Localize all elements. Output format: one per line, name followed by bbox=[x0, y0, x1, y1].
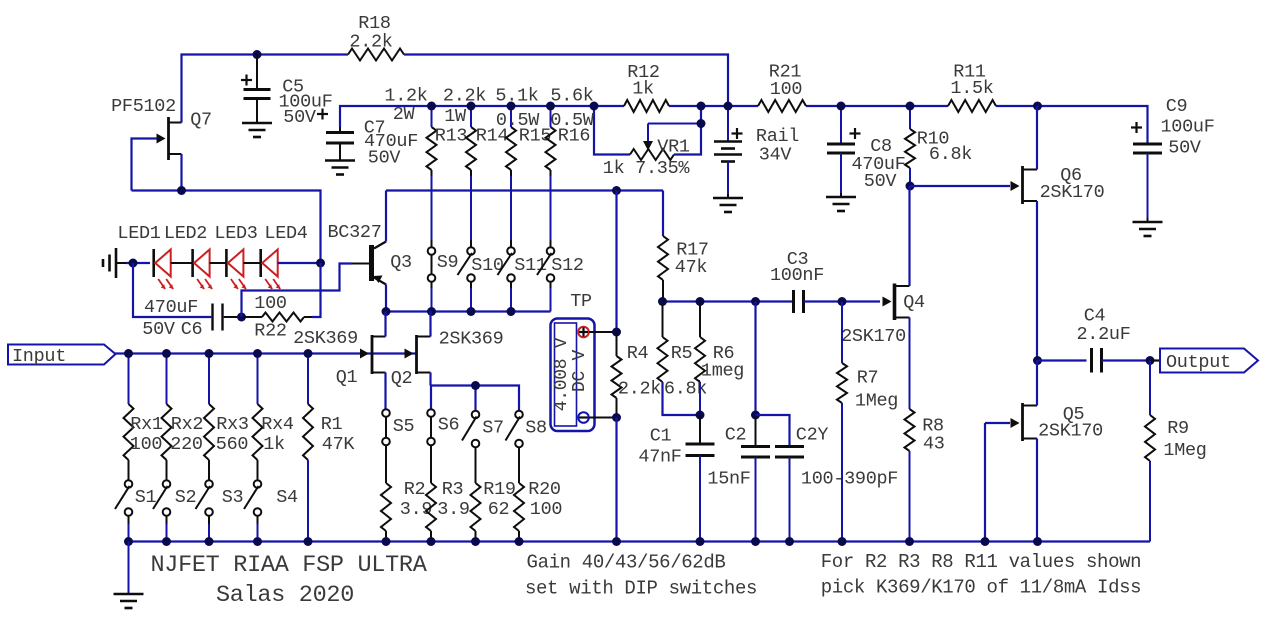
switch S3 bbox=[196, 480, 244, 541]
svg-text:50V: 50V bbox=[1168, 138, 1201, 159]
wire C6 to R22 node bbox=[224, 316, 242, 318]
svg-text:LED2: LED2 bbox=[164, 223, 207, 244]
node bottom rail x842 bbox=[838, 537, 847, 546]
svg-text:560: 560 bbox=[216, 434, 248, 455]
wire Q6 source down bbox=[1036, 201, 1038, 361]
svg-text:BC327: BC327 bbox=[327, 222, 381, 243]
resistor R17 bbox=[658, 191, 709, 302]
wire main rail bbox=[340, 106, 1148, 143]
svg-text:Input: Input bbox=[12, 346, 66, 367]
switch S9 bbox=[428, 170, 459, 312]
svg-text:5.6k: 5.6k bbox=[550, 86, 593, 107]
node C5 top junction bbox=[253, 50, 262, 59]
wire Q6 drain up bbox=[1036, 106, 1039, 170]
svg-text:R1: R1 bbox=[321, 414, 343, 435]
node Rx1 input junction bbox=[124, 349, 133, 358]
svg-text:Salas 2020: Salas 2020 bbox=[216, 582, 354, 609]
svg-text:R9: R9 bbox=[1167, 418, 1189, 439]
node Rx2 input junction bbox=[162, 349, 171, 358]
wire Q1 drain up bbox=[384, 312, 386, 337]
wire Q3 emitter rail bbox=[386, 189, 663, 191]
svg-text:100: 100 bbox=[530, 499, 562, 520]
capacitor C1 bbox=[638, 415, 714, 542]
node bottom rail x431 bbox=[427, 537, 436, 546]
svg-text:43: 43 bbox=[923, 434, 945, 455]
node R17 R5 junction bbox=[658, 297, 667, 306]
svg-text:3.9: 3.9 bbox=[437, 499, 469, 520]
switch S5 bbox=[382, 409, 414, 445]
node R4 top junction bbox=[612, 328, 621, 337]
svg-text:DC V: DC V bbox=[570, 350, 590, 393]
svg-text:Gain 40/43/56/62dB: Gain 40/43/56/62dB bbox=[527, 552, 726, 574]
transistor Q3 BC327 bbox=[327, 222, 411, 285]
node R16 rail junction bbox=[546, 102, 555, 111]
switch S10 bbox=[458, 170, 504, 312]
svg-text:NJFET RIAA FSP ULTRA: NJFET RIAA FSP ULTRA bbox=[150, 552, 427, 579]
node Q6 drain rail junction bbox=[1033, 102, 1042, 111]
node bottom rail x308 bbox=[304, 537, 313, 546]
capacitor C8 bbox=[826, 106, 906, 211]
node LED string left bbox=[129, 259, 138, 268]
svg-text:47k: 47k bbox=[675, 257, 708, 278]
transistor Q2 2SK369 bbox=[391, 329, 504, 390]
wire bottom ground rail bbox=[129, 540, 1151, 542]
wire LED1-LED2 bbox=[171, 262, 193, 264]
test point meter TP bbox=[551, 291, 595, 431]
resistor R2 bbox=[381, 445, 432, 541]
battery Rail 34V bbox=[713, 106, 799, 212]
capacitor C7 bbox=[317, 109, 418, 175]
meter minus terminal bbox=[578, 412, 589, 423]
svg-text:Q4: Q4 bbox=[903, 292, 925, 313]
svg-text:pick K369/K170 of 11/8mA Idss: pick K369/K170 of 11/8mA Idss bbox=[821, 577, 1142, 599]
node R1 input junction bbox=[304, 349, 313, 358]
node R13 rail junction bbox=[427, 102, 436, 111]
svg-text:1k: 1k bbox=[632, 79, 654, 100]
capacitor C9 bbox=[1131, 96, 1215, 236]
node bottom rail x209 bbox=[205, 537, 214, 546]
Output flag bbox=[1150, 349, 1258, 374]
wire C2 column bbox=[754, 302, 756, 416]
switch S11 bbox=[498, 170, 547, 312]
node S11 junction bbox=[507, 307, 516, 316]
transistor Q6 2SK170 bbox=[1011, 165, 1105, 204]
svg-text:100: 100 bbox=[254, 293, 286, 314]
wire S7 S8 branch bbox=[431, 386, 519, 411]
capacitor C6 bbox=[142, 297, 222, 340]
node Q5 Q6 C4 junction bbox=[1033, 356, 1042, 365]
svg-text:Rx4: Rx4 bbox=[261, 414, 294, 435]
switch S2 bbox=[153, 480, 196, 541]
LED3 bbox=[214, 223, 257, 289]
capacitor C2Y bbox=[756, 415, 899, 542]
node R10 bottom junction bbox=[906, 182, 915, 191]
svg-text:LED4: LED4 bbox=[264, 223, 307, 244]
node C2 top junction bbox=[751, 297, 760, 306]
wire Q2 source down bbox=[429, 373, 432, 410]
resistor R19 bbox=[471, 447, 516, 541]
resistor R11 bbox=[948, 62, 996, 113]
svg-text:R20: R20 bbox=[528, 479, 560, 500]
capacitor C3 bbox=[770, 249, 824, 313]
node VR1 left bbox=[590, 102, 599, 111]
resistor R7 bbox=[837, 302, 898, 542]
svg-text:2SK170: 2SK170 bbox=[1038, 421, 1103, 442]
svg-text:1k: 1k bbox=[263, 434, 285, 455]
transistor Q7 PF5102 bbox=[111, 96, 212, 160]
resistor R1 bbox=[303, 354, 355, 542]
svg-text:S12: S12 bbox=[551, 255, 583, 276]
svg-text:C6: C6 bbox=[181, 319, 203, 340]
node bottom rail x985 bbox=[981, 537, 990, 546]
wire C4 to output bbox=[1102, 359, 1161, 361]
node R15 rail junction bbox=[507, 102, 516, 111]
wire gate node row bbox=[663, 300, 795, 302]
resistor R21 bbox=[758, 62, 806, 113]
note values line1 bbox=[821, 551, 1142, 573]
svg-text:S11: S11 bbox=[514, 255, 547, 276]
svg-text:Q2: Q2 bbox=[391, 368, 413, 389]
svg-text:100-390pF: 100-390pF bbox=[801, 469, 898, 490]
resistor R10 bbox=[905, 106, 972, 186]
potentiometer VR1 bbox=[594, 106, 701, 179]
resistor R6 bbox=[695, 302, 744, 416]
wire Q5 source down bbox=[1036, 439, 1038, 542]
node bottom rail x616.5 bbox=[612, 537, 621, 546]
svg-text:100: 100 bbox=[770, 79, 802, 100]
resistor Rx2 bbox=[162, 354, 204, 481]
svg-text:220: 220 bbox=[170, 434, 202, 455]
node bottom rail x755.5 bbox=[751, 537, 760, 546]
wire Q3 collector down bbox=[385, 285, 387, 312]
capacitor C4 bbox=[1076, 306, 1130, 373]
ground LED string (rotated) bbox=[103, 248, 126, 278]
svg-text:1meg: 1meg bbox=[701, 361, 744, 382]
wire node to C4 bbox=[1038, 359, 1087, 361]
switch S12 bbox=[537, 170, 584, 312]
resistor Rx4 bbox=[253, 354, 294, 481]
switch S8 bbox=[506, 411, 547, 448]
svg-text:C9: C9 bbox=[1166, 96, 1188, 117]
svg-text:47K: 47K bbox=[322, 434, 356, 455]
wire Q5 drain up bbox=[1036, 361, 1038, 406]
svg-text:1Meg: 1Meg bbox=[1163, 440, 1206, 461]
svg-text:C2Y: C2Y bbox=[796, 425, 829, 446]
resistor Rx3 bbox=[204, 354, 249, 481]
svg-text:2.2k: 2.2k bbox=[443, 86, 486, 107]
node bottom rail x1037.5 bbox=[1033, 537, 1042, 546]
transistor Q4 2SK170 bbox=[841, 284, 925, 348]
svg-text:Rx1: Rx1 bbox=[130, 414, 163, 435]
switch S4 bbox=[244, 480, 298, 541]
svg-text:LED1: LED1 bbox=[117, 223, 160, 244]
wire TP column lower bbox=[615, 418, 617, 542]
svg-text:R22: R22 bbox=[254, 321, 286, 342]
resistor R18 bbox=[348, 13, 404, 61]
node TP column top junction bbox=[612, 186, 621, 195]
wire Q3 base bbox=[242, 264, 370, 318]
wire top supply from Q7 drain to R18 and down to rail bbox=[182, 55, 729, 123]
resistor R22 bbox=[242, 293, 313, 342]
resistor R9 bbox=[1145, 361, 1207, 542]
node bottom rail x166.5 bbox=[162, 537, 171, 546]
resistor R14 bbox=[443, 86, 509, 171]
node Q3 collector Q1 drain junction bbox=[382, 307, 391, 316]
svg-text:R13: R13 bbox=[435, 126, 467, 147]
svg-text:set with DIP switches: set with DIP switches bbox=[525, 578, 757, 600]
svg-text:LED3: LED3 bbox=[214, 223, 257, 244]
svg-text:1W: 1W bbox=[444, 106, 467, 127]
svg-text:S4: S4 bbox=[276, 487, 298, 508]
node R7 top junction bbox=[838, 297, 847, 306]
wire Q3 emitter up bbox=[385, 191, 387, 242]
svg-text:For R2 R3 R8 R11 values shown: For R2 R3 R8 R11 values shown bbox=[821, 551, 1142, 573]
svg-text:2SK170: 2SK170 bbox=[1040, 182, 1105, 203]
svg-text:5.1k: 5.1k bbox=[495, 86, 538, 107]
node R14 rail junction bbox=[467, 102, 476, 111]
node Rx4 input junction bbox=[253, 349, 262, 358]
wire switch output row bbox=[386, 310, 551, 312]
svg-text:S3: S3 bbox=[222, 487, 244, 508]
resistor R4 bbox=[612, 332, 662, 418]
svg-text:2.2k: 2.2k bbox=[349, 32, 392, 53]
wire Q4 drain up bbox=[908, 186, 911, 286]
svg-text:62: 62 bbox=[488, 499, 510, 520]
svg-text:S5: S5 bbox=[393, 416, 415, 437]
svg-text:50V: 50V bbox=[283, 107, 316, 128]
node S9 Q2 drain junction bbox=[427, 307, 436, 316]
wire meter minus to R4 bbox=[589, 417, 617, 419]
LED2 bbox=[164, 223, 212, 289]
ground bottom left bbox=[114, 542, 144, 609]
svg-text:R2: R2 bbox=[404, 479, 426, 500]
svg-text:1.5k: 1.5k bbox=[950, 78, 993, 99]
svg-text:2SK170: 2SK170 bbox=[841, 326, 906, 347]
svg-text:1k 7.35%: 1k 7.35% bbox=[603, 158, 691, 179]
capacitor C2 bbox=[707, 415, 770, 542]
node R10 rail junction bbox=[906, 102, 915, 111]
LED4 bbox=[261, 223, 308, 289]
LED1 bbox=[117, 223, 173, 289]
svg-text:S8: S8 bbox=[525, 418, 547, 439]
svg-text:R7: R7 bbox=[857, 368, 879, 389]
node bottom rail x257.5 bbox=[253, 537, 262, 546]
Input flag bbox=[8, 345, 125, 368]
node Rx3 input junction bbox=[205, 349, 214, 358]
svg-text:R4: R4 bbox=[627, 343, 649, 364]
node C8 rail junction bbox=[837, 102, 846, 111]
wire R10 to Q6 gate bbox=[910, 185, 1010, 187]
node bottom rail x475.5 bbox=[471, 537, 480, 546]
svg-text:50V: 50V bbox=[368, 148, 401, 169]
svg-text:Rx3: Rx3 bbox=[216, 414, 248, 435]
svg-text:S9: S9 bbox=[437, 252, 459, 273]
svg-text:R5: R5 bbox=[671, 343, 693, 364]
node Q7 source junction bbox=[177, 186, 186, 195]
wire C3 to Q4 gate bbox=[804, 297, 892, 307]
wire Q5 gate bbox=[985, 423, 1010, 542]
svg-text:1Meg: 1Meg bbox=[855, 391, 898, 412]
resistor R12 bbox=[624, 62, 669, 112]
resistor R20 bbox=[514, 447, 562, 541]
node R4 bottom junction bbox=[612, 413, 621, 422]
svg-text:Q1: Q1 bbox=[336, 367, 358, 388]
note gain line1 bbox=[527, 552, 726, 574]
svg-text:Rx2: Rx2 bbox=[171, 414, 203, 435]
svg-text:R3: R3 bbox=[442, 479, 464, 500]
meter plus terminal bbox=[578, 327, 589, 338]
svg-text:2W: 2W bbox=[393, 104, 416, 125]
svg-text:34V: 34V bbox=[759, 145, 792, 166]
svg-text:Output: Output bbox=[1166, 352, 1231, 373]
node LED right junction bbox=[316, 259, 325, 268]
svg-text:Q7: Q7 bbox=[190, 110, 212, 131]
wire LED3-LED4 bbox=[244, 262, 261, 264]
svg-text:TP: TP bbox=[570, 291, 592, 312]
svg-text:6.8k: 6.8k bbox=[929, 144, 972, 165]
resistor R13 bbox=[384, 86, 467, 171]
node battery rail junction bbox=[724, 102, 733, 111]
wire ground to LED1 bbox=[126, 262, 150, 264]
svg-text:2SK369: 2SK369 bbox=[439, 329, 504, 350]
title Salas 2020 bbox=[216, 582, 354, 609]
svg-text:C1: C1 bbox=[650, 426, 672, 447]
node S7 branch junction bbox=[471, 381, 480, 390]
resistor R8 bbox=[905, 318, 945, 542]
svg-text:100uF: 100uF bbox=[1160, 117, 1214, 138]
wire LED2-LED3 bbox=[210, 262, 227, 264]
note values line2 bbox=[821, 577, 1142, 599]
svg-text:100nF: 100nF bbox=[770, 265, 824, 286]
svg-text:S6: S6 bbox=[438, 415, 460, 436]
svg-text:15nF: 15nF bbox=[707, 469, 750, 490]
note gain line2 bbox=[525, 578, 757, 600]
wire LED left down to C6 bbox=[133, 263, 211, 317]
svg-text:R16: R16 bbox=[558, 126, 590, 147]
wire meter plus to R4 bbox=[589, 331, 617, 333]
svg-text:50V: 50V bbox=[864, 171, 897, 192]
switch S6 bbox=[427, 409, 459, 445]
svg-text:4.008 V: 4.008 V bbox=[552, 337, 572, 411]
node C6 R22 base junction bbox=[237, 313, 246, 322]
node bottom rail x386 bbox=[382, 537, 391, 546]
svg-text:100: 100 bbox=[130, 434, 162, 455]
node C1 top junction bbox=[696, 411, 705, 420]
node C2 mid junction bbox=[751, 411, 760, 420]
switch S1 bbox=[115, 480, 156, 541]
svg-text:470uF: 470uF bbox=[144, 297, 198, 318]
node bottom rail x700 bbox=[696, 537, 705, 546]
resistor Rx1 bbox=[124, 354, 163, 481]
transistor Q1 2SK369 bbox=[293, 328, 385, 388]
wire LED4 to node bbox=[278, 262, 321, 264]
wire Q1 source down bbox=[384, 373, 386, 410]
node output junction bbox=[1146, 356, 1155, 365]
svg-text:47nF: 47nF bbox=[638, 447, 681, 468]
svg-text:2SK369: 2SK369 bbox=[293, 328, 358, 349]
svg-text:R19: R19 bbox=[483, 479, 515, 500]
resistor R3 bbox=[426, 445, 470, 541]
wire TP column upper bbox=[615, 191, 617, 333]
node R6 top junction bbox=[696, 297, 705, 306]
wire Q7 source node bbox=[132, 154, 321, 263]
svg-text:PF5102: PF5102 bbox=[111, 96, 176, 117]
node S10 junction bbox=[467, 307, 476, 316]
wire Q7 gate loop bbox=[132, 139, 158, 191]
svg-text:2.2k: 2.2k bbox=[618, 379, 661, 400]
svg-text:Q3: Q3 bbox=[390, 252, 412, 273]
svg-text:S7: S7 bbox=[482, 418, 504, 439]
svg-text:2.2uF: 2.2uF bbox=[1076, 324, 1130, 345]
transistor Q5 2SK170 bbox=[1011, 403, 1103, 442]
wire R22 right to LED node bbox=[312, 263, 321, 317]
node bottom rail x519 bbox=[515, 537, 524, 546]
title NJFET RIAA FSP ULTRA bbox=[150, 552, 427, 579]
svg-text:C2: C2 bbox=[725, 425, 747, 446]
resistor R5 bbox=[658, 302, 708, 416]
node bottom rail x789.5 bbox=[785, 537, 794, 546]
resistor R15 bbox=[495, 86, 551, 171]
capacitor C5 bbox=[241, 55, 333, 138]
wire input row bbox=[115, 352, 417, 354]
node bottom rail x909.5 bbox=[905, 537, 914, 546]
svg-text:S2: S2 bbox=[175, 487, 197, 508]
resistor R16 bbox=[546, 86, 595, 171]
node VR1 wiper bbox=[697, 119, 706, 128]
svg-text:S1: S1 bbox=[135, 487, 157, 508]
node VR1 right rail bbox=[697, 102, 706, 111]
svg-text:VR1: VR1 bbox=[657, 137, 690, 158]
node bottom rail x128.5 bbox=[124, 537, 133, 546]
svg-text:50V: 50V bbox=[142, 319, 175, 340]
wire Q2 drain up bbox=[431, 312, 432, 337]
switch S7 bbox=[462, 411, 504, 448]
